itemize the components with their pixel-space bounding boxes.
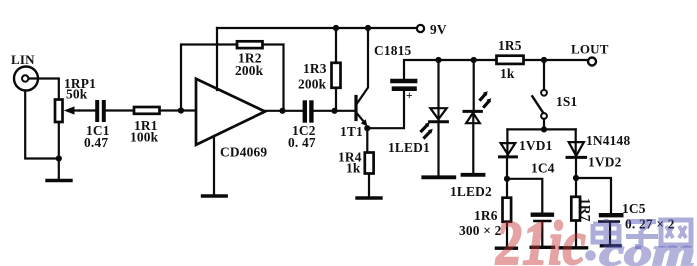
- wire R3 top: [335, 28, 337, 63]
- node LED2 top: [471, 57, 477, 63]
- wire output to C2: [265, 110, 302, 112]
- wire C4 to ground: [541, 223, 543, 246]
- svg-text:0.47: 0.47: [84, 135, 108, 150]
- diode VD1: [501, 143, 516, 154]
- terminal 9V: [417, 25, 424, 32]
- wire VSS to ground: [213, 136, 215, 195]
- wire wiper to C1: [79, 109, 96, 111]
- capacitor C5 top plate: [601, 213, 621, 217]
- node emitter junction: [364, 125, 370, 131]
- diode VD2 wire bottom: [575, 158, 577, 197]
- node input junction: [178, 107, 184, 113]
- svg-text:1LED2: 1LED2: [450, 184, 492, 199]
- ground (input section): [47, 179, 71, 182]
- watermark dot: [585, 250, 596, 261]
- svg-text:1S1: 1S1: [556, 94, 577, 109]
- svg-text:1VD2: 1VD2: [588, 155, 622, 170]
- LED1 wire top: [437, 60, 439, 122]
- capacitor C4 bottom plate: [534, 220, 550, 223]
- wire pot bottom to ground: [58, 122, 60, 179]
- terminal LOUT: [588, 58, 596, 66]
- svg-text:1C4: 1C4: [531, 161, 555, 176]
- potentiometer RP1: [55, 100, 63, 123]
- svg-text:1k: 1k: [500, 66, 515, 81]
- transistor T1 collector: [357, 28, 368, 104]
- svg-text:100k: 100k: [130, 130, 159, 145]
- wire R1 to inverter input: [160, 109, 197, 111]
- LED1 triangle: [430, 108, 446, 119]
- ground (C5): [601, 244, 620, 247]
- diode VD1 wire bottom: [506, 158, 508, 198]
- wire jack to RP1 top: [29, 79, 59, 100]
- svg-text:1k: 1k: [346, 161, 361, 176]
- feedback wire output side: [263, 45, 284, 111]
- LED2 triangle: [466, 113, 480, 123]
- wire C2 to base node: [312, 110, 357, 112]
- ground (LED1): [423, 175, 454, 179]
- LED1 wire bottom: [437, 123, 439, 176]
- svg-text:1VD1: 1VD1: [519, 138, 553, 153]
- svg-text:LOUT: LOUT: [571, 42, 609, 57]
- resistor R1: [134, 107, 160, 114]
- connector LIN jack: [14, 67, 38, 91]
- svg-text:1N4148: 1N4148: [586, 133, 630, 148]
- wire R6 to ground: [506, 222, 508, 247]
- wire rail to S1: [543, 60, 545, 90]
- capacitor C1: [95, 102, 99, 120]
- diode VD2 cathode bar: [567, 156, 586, 159]
- resistor R3: [332, 63, 341, 88]
- char wang: [661, 220, 691, 245]
- svg-text:1R3: 1R3: [303, 61, 327, 76]
- svg-text:9V: 9V: [430, 22, 447, 37]
- LED2 emission arrows: [481, 94, 486, 99]
- LED2 wire bottom: [472, 112, 474, 173]
- node base junction: [331, 108, 337, 114]
- resistor R2: [237, 41, 263, 48]
- svg-text:CD4069: CD4069: [220, 145, 267, 160]
- node collector on rail: [365, 25, 371, 31]
- capacitor C3 electrolytic top plate: [393, 79, 416, 84]
- capacitor C2: [303, 103, 307, 121]
- switch S1 bottom contact: [541, 113, 547, 119]
- node S1 top on rail: [541, 57, 547, 63]
- wire VD1 node to C4: [507, 179, 542, 213]
- LED1 cathode bar: [430, 120, 448, 123]
- wire R3 bottom: [335, 88, 337, 111]
- node pot bottom junction: [56, 155, 62, 161]
- wire VD2 node to C5: [576, 178, 611, 213]
- wire S1 to bus: [543, 119, 545, 129]
- svg-text:200k: 200k: [298, 77, 327, 92]
- feedback wire input side: [181, 45, 237, 111]
- svg-text:+: +: [406, 90, 413, 102]
- svg-text:1C5: 1C5: [622, 201, 646, 216]
- watermark com: [585, 231, 695, 266]
- watermark 21ic.com logo: [495, 210, 695, 266]
- svg-text:50k: 50k: [66, 87, 88, 102]
- switch S1 lever: [532, 96, 543, 112]
- wire C5 to ground: [609, 223, 611, 244]
- LED2 wire top: [473, 60, 475, 112]
- wire R4 to ground: [368, 174, 370, 197]
- resistor R6: [503, 198, 512, 222]
- svg-text:1LED1: 1LED1: [388, 140, 430, 155]
- wire emitter to C3: [367, 91, 404, 128]
- LED2 cathode bar: [464, 110, 481, 113]
- diode VD2: [569, 142, 584, 156]
- node R3 on rail: [333, 25, 339, 31]
- resistor R5: [497, 56, 524, 64]
- svg-text:1T1: 1T1: [340, 124, 363, 139]
- ground (R7): [560, 246, 586, 249]
- wire C1 to R1: [106, 109, 134, 111]
- node output junction: [279, 108, 285, 114]
- watermark chinese 电子网: [593, 219, 691, 247]
- node VD1 bottom: [504, 176, 510, 182]
- LED1 emission arrows: [422, 125, 428, 131]
- char zi: [626, 222, 658, 247]
- node S1 on bus: [541, 126, 547, 132]
- svg-text:LIN: LIN: [11, 52, 35, 67]
- wire C3 to output rail: [404, 60, 497, 79]
- ground (C4): [531, 246, 553, 249]
- wire R7 to ground: [575, 221, 577, 247]
- wire VDD to top rail: [216, 28, 218, 90]
- ground (R4): [357, 196, 381, 199]
- capacitor C4 top plate: [533, 212, 552, 216]
- svg-text:200k: 200k: [235, 63, 264, 78]
- transistor T1 base bar: [354, 97, 357, 120]
- capacitor C5 bottom plate: [599, 220, 619, 223]
- diode VD2 wire top: [575, 129, 577, 157]
- capacitor C3 electrolytic bottom plate: [394, 86, 415, 91]
- switch S1 top contact: [541, 90, 547, 96]
- transistor T1 emitter with arrow: [357, 114, 365, 123]
- node LED1 top: [435, 57, 441, 63]
- svg-text:0. 47: 0. 47: [288, 135, 316, 150]
- wire bottom-left return: [25, 91, 59, 159]
- diode VD1 wire top: [506, 129, 508, 157]
- op-amp inverter U1 CD4069: [196, 79, 265, 145]
- ground (R6): [496, 246, 516, 249]
- output rail right of R5: [524, 59, 589, 61]
- ground (LED2): [463, 173, 484, 177]
- diode VD1 cathode bar: [500, 155, 517, 158]
- top rail to 9V: [217, 27, 417, 29]
- svg-text:1R6: 1R6: [474, 208, 498, 223]
- wiper arrow of RP1: [70, 109, 79, 111]
- resistor R7: [571, 197, 580, 221]
- watermark 21ic: [495, 210, 586, 266]
- wire emitter to R4: [366, 128, 368, 152]
- svg-text:C1815: C1815: [374, 43, 412, 58]
- node VD2 bottom: [573, 175, 579, 181]
- ground (inverter): [203, 194, 227, 197]
- resistor R4: [365, 153, 374, 174]
- char dian: [593, 219, 621, 245]
- svg-text:21ic: 21ic: [495, 210, 586, 266]
- svg-text:1R5: 1R5: [498, 38, 522, 53]
- bus wire below S1: [507, 128, 575, 130]
